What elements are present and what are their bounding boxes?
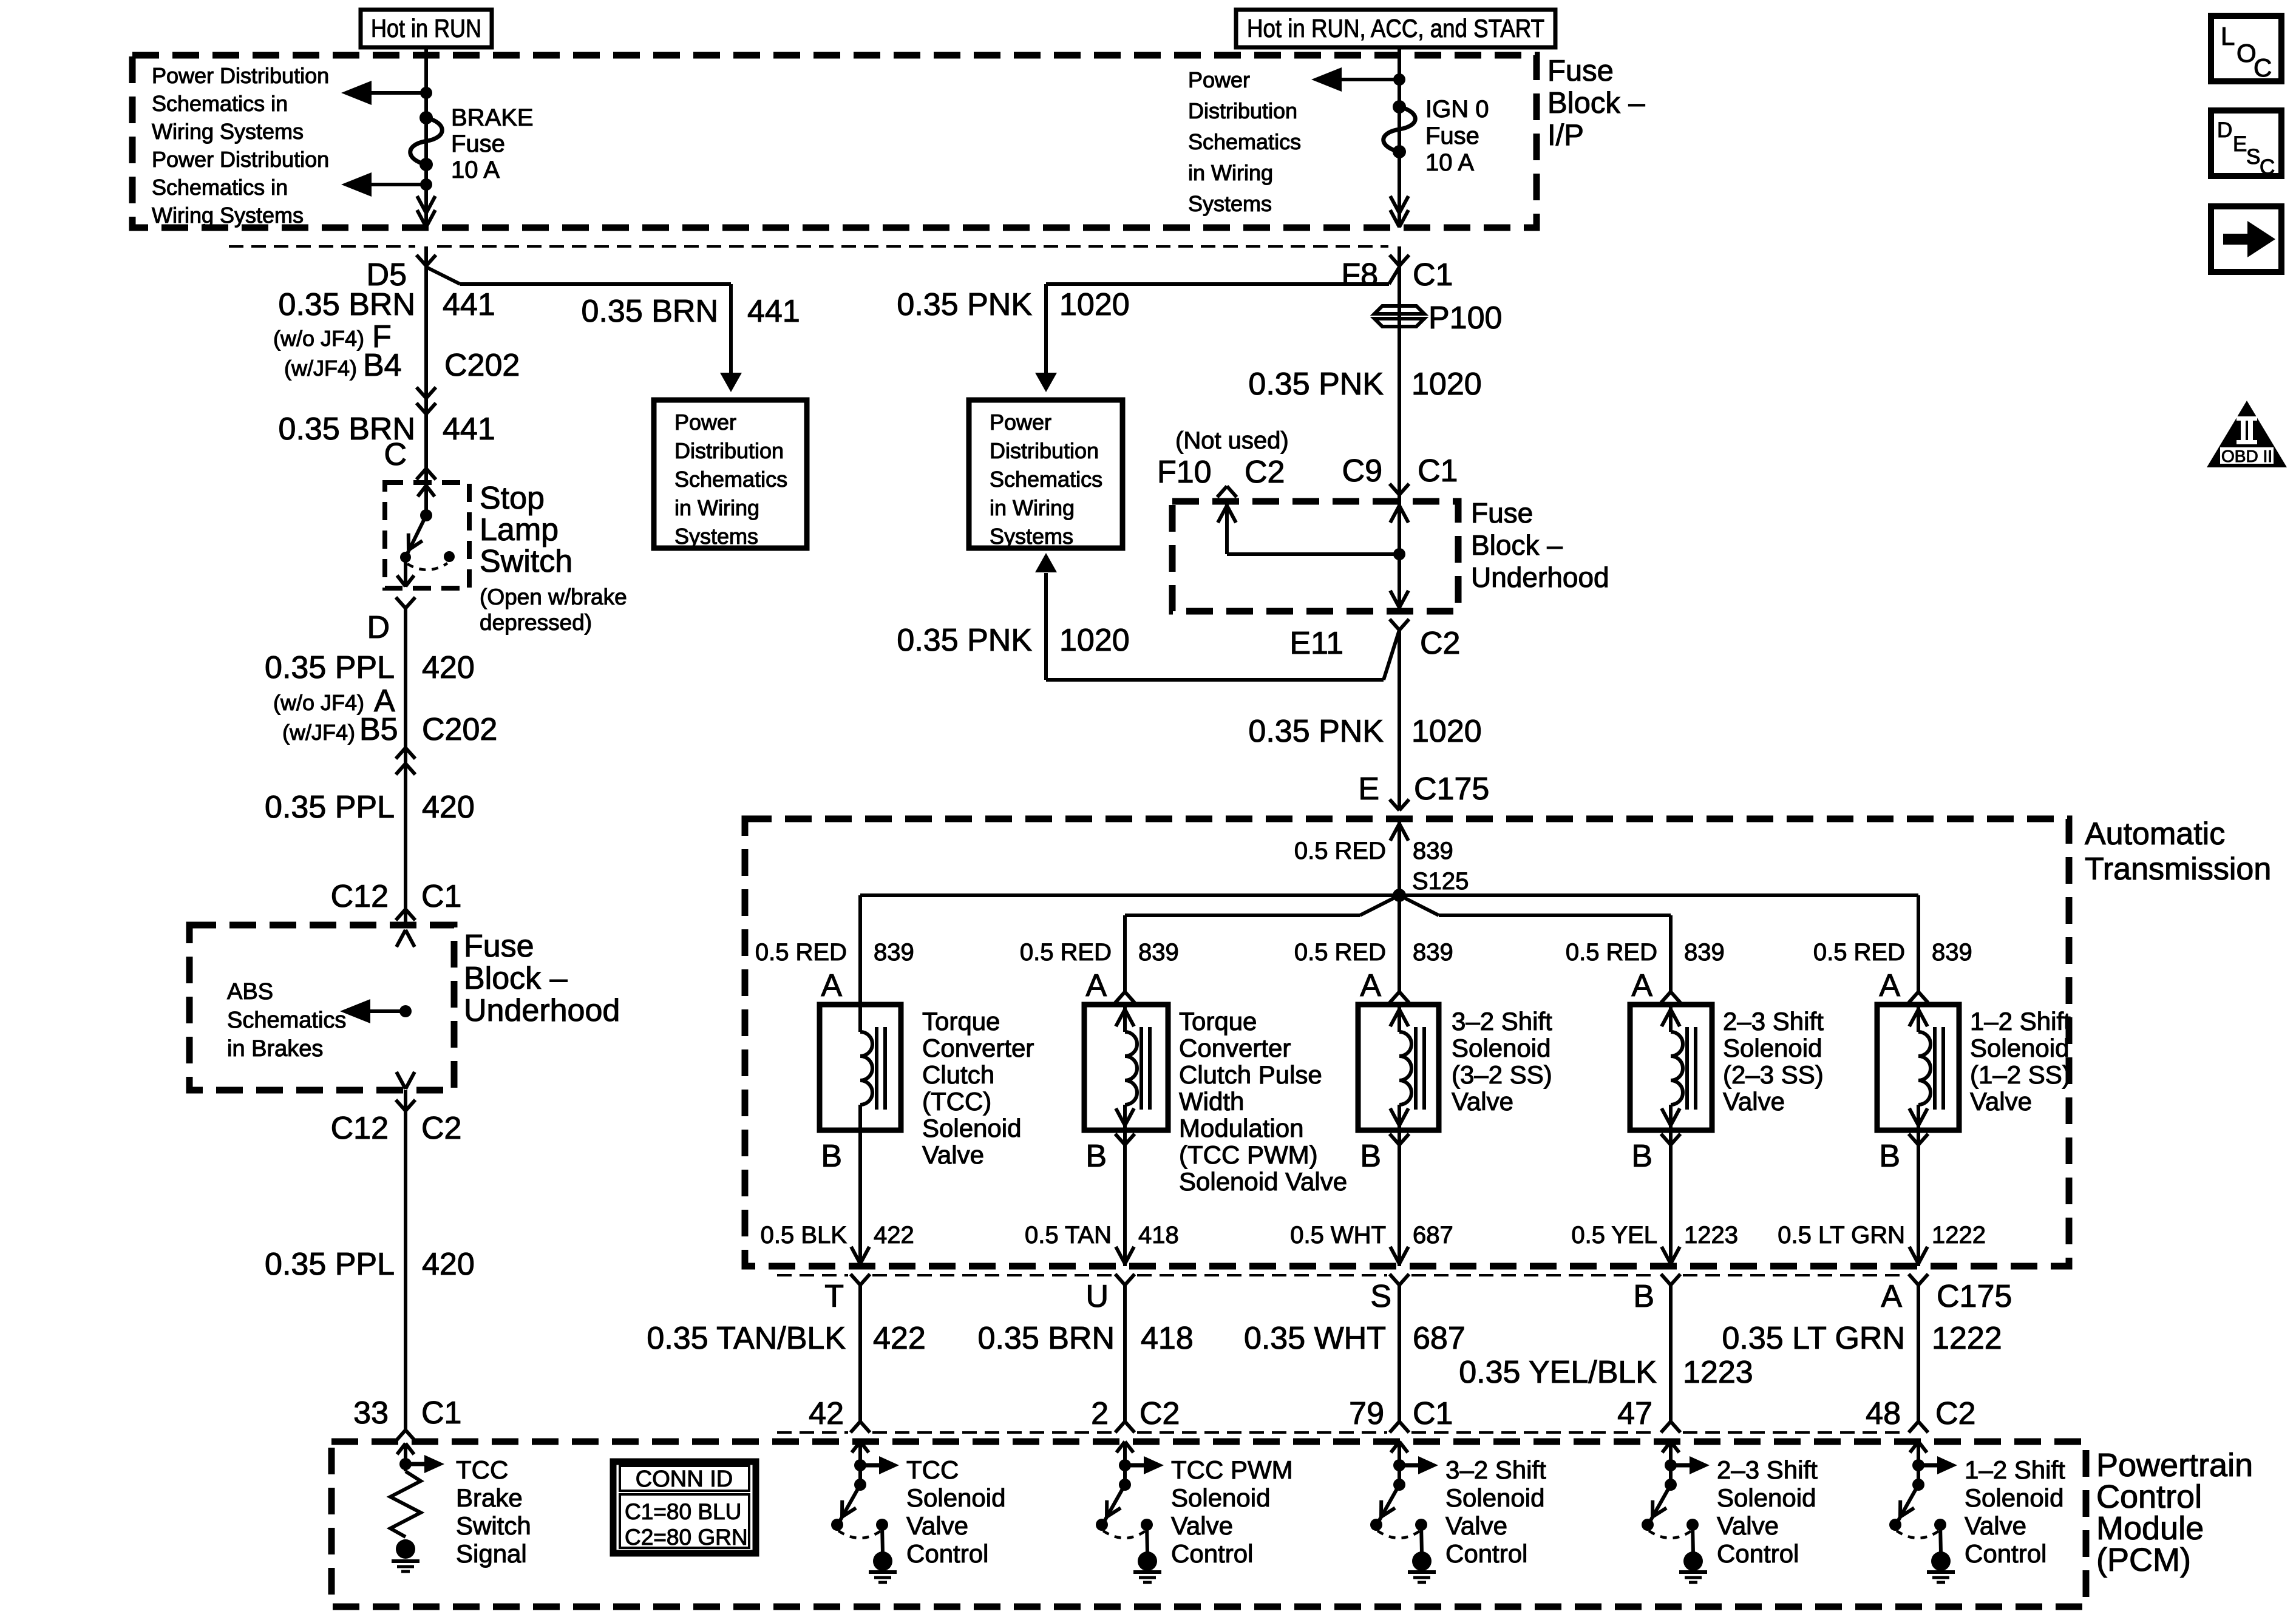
svg-text:E11: E11: [1289, 626, 1343, 661]
svg-text:C1: C1: [421, 879, 461, 914]
svg-text:422: 422: [874, 1222, 914, 1249]
svg-text:1020: 1020: [1059, 287, 1130, 322]
svg-text:Schematics: Schematics: [1188, 129, 1301, 154]
svg-text:0.5 RED: 0.5 RED: [1294, 939, 1386, 966]
svg-text:0.5 RED: 0.5 RED: [1813, 939, 1905, 966]
svg-text:C2: C2: [1140, 1396, 1180, 1431]
svg-text:C2: C2: [421, 1111, 461, 1146]
svg-text:79: 79: [1349, 1396, 1384, 1431]
svg-text:C: C: [2254, 53, 2272, 82]
svg-text:U: U: [1085, 1279, 1109, 1314]
svg-text:Solenoid: Solenoid: [1723, 1034, 1822, 1062]
svg-text:(1–2 SS): (1–2 SS): [1970, 1060, 2071, 1089]
svg-text:1020: 1020: [1411, 367, 1482, 402]
svg-text:Underhood: Underhood: [1471, 561, 1609, 593]
svg-text:420: 420: [422, 650, 475, 685]
svg-text:TCC: TCC: [456, 1456, 508, 1484]
svg-text:Solenoid: Solenoid: [922, 1114, 1021, 1142]
svg-text:0.35 PNK: 0.35 PNK: [1248, 367, 1384, 402]
svg-text:C202: C202: [422, 712, 497, 747]
svg-text:Block –: Block –: [464, 961, 568, 996]
svg-text:0.35 PPL: 0.35 PPL: [265, 650, 395, 685]
svg-text:Power: Power: [1188, 67, 1250, 92]
svg-text:441: 441: [443, 412, 495, 447]
svg-text:Systems: Systems: [674, 524, 758, 549]
svg-text:B5: B5: [359, 712, 398, 747]
svg-text:3–2 Shift: 3–2 Shift: [1445, 1456, 1546, 1484]
svg-text:ABS: ABS: [227, 979, 273, 1005]
svg-text:Powertrain: Powertrain: [2096, 1447, 2253, 1483]
svg-text:C: C: [384, 437, 407, 472]
svg-text:0.5 RED: 0.5 RED: [1020, 939, 1112, 966]
svg-text:Schematics: Schematics: [674, 467, 787, 492]
svg-text:Solenoid: Solenoid: [1445, 1483, 1544, 1512]
svg-text:Converter: Converter: [922, 1034, 1034, 1062]
svg-text:Wiring Systems: Wiring Systems: [152, 203, 304, 228]
svg-text:C175: C175: [1414, 771, 1489, 807]
svg-text:D: D: [367, 610, 390, 645]
svg-text:Systems: Systems: [1188, 191, 1272, 216]
svg-text:B: B: [1633, 1279, 1654, 1314]
svg-text:839: 839: [1684, 939, 1725, 966]
svg-text:0.35 BRN: 0.35 BRN: [978, 1321, 1115, 1356]
svg-text:0.35 LT GRN: 0.35 LT GRN: [1722, 1321, 1905, 1356]
svg-text:Switch: Switch: [480, 544, 572, 579]
svg-text:Valve: Valve: [906, 1511, 968, 1540]
svg-text:420: 420: [422, 1247, 475, 1282]
svg-text:10 A: 10 A: [1425, 149, 1474, 176]
svg-text:3–2 Shift: 3–2 Shift: [1452, 1007, 1552, 1036]
svg-text:Transmission: Transmission: [2085, 852, 2271, 887]
svg-text:Schematics in: Schematics in: [152, 91, 288, 116]
svg-text:Valve: Valve: [1970, 1087, 2032, 1116]
svg-text:Wiring Systems: Wiring Systems: [152, 119, 304, 144]
svg-text:Converter: Converter: [1179, 1034, 1291, 1062]
svg-text:Power: Power: [674, 410, 736, 435]
svg-text:B: B: [1879, 1139, 1900, 1174]
svg-text:C2: C2: [1420, 626, 1460, 661]
svg-text:Signal: Signal: [456, 1539, 527, 1568]
svg-text:C1=80 BLU: C1=80 BLU: [625, 1499, 741, 1524]
svg-text:Systems: Systems: [990, 524, 1073, 549]
svg-text:TCC: TCC: [906, 1456, 959, 1484]
svg-text:(Not used): (Not used): [1175, 427, 1289, 454]
svg-text:1020: 1020: [1411, 714, 1482, 749]
svg-text:1222: 1222: [1932, 1222, 1986, 1249]
svg-text:Clutch: Clutch: [922, 1060, 994, 1089]
svg-text:0.35 PNK: 0.35 PNK: [897, 287, 1032, 322]
svg-text:C1: C1: [1413, 257, 1453, 293]
svg-text:2–3 Shift: 2–3 Shift: [1723, 1007, 1824, 1036]
svg-text:Schematics: Schematics: [227, 1008, 346, 1033]
svg-text:C2=80 GRN: C2=80 GRN: [625, 1525, 748, 1550]
svg-text:A: A: [821, 968, 842, 1003]
svg-text:839: 839: [1413, 939, 1453, 966]
svg-text:48: 48: [1866, 1396, 1901, 1431]
svg-text:E: E: [1358, 771, 1379, 807]
svg-text:0.5 BLK: 0.5 BLK: [761, 1222, 847, 1249]
svg-text:Brake: Brake: [456, 1483, 523, 1512]
svg-text:2–3 Shift: 2–3 Shift: [1717, 1456, 1818, 1484]
svg-text:Control: Control: [1171, 1539, 1253, 1568]
svg-text:depressed): depressed): [480, 610, 592, 635]
svg-text:Width: Width: [1179, 1087, 1244, 1116]
svg-text:(w/o JF4): (w/o JF4): [273, 690, 364, 715]
svg-text:1–2 Shift: 1–2 Shift: [1970, 1007, 2071, 1036]
svg-text:839: 839: [1932, 939, 1972, 966]
svg-text:IGN 0: IGN 0: [1425, 96, 1489, 123]
svg-text:in Brakes: in Brakes: [227, 1036, 323, 1062]
svg-text:in Wiring: in Wiring: [674, 495, 759, 520]
svg-text:839: 839: [874, 939, 914, 966]
svg-text:Solenoid: Solenoid: [1965, 1483, 2063, 1512]
svg-text:C: C: [2260, 155, 2275, 179]
svg-text:Control: Control: [1717, 1539, 1799, 1568]
svg-text:687: 687: [1413, 1321, 1466, 1356]
svg-text:C202: C202: [444, 348, 520, 383]
svg-text:Solenoid: Solenoid: [1171, 1483, 1270, 1512]
svg-text:Valve: Valve: [1445, 1511, 1507, 1540]
svg-text:Solenoid: Solenoid: [1970, 1034, 2069, 1062]
svg-text:E: E: [2233, 132, 2247, 156]
svg-text:Distribution: Distribution: [1188, 98, 1297, 123]
svg-text:Power: Power: [990, 410, 1051, 435]
svg-text:Valve: Valve: [1452, 1087, 1513, 1116]
svg-text:(TCC PWM): (TCC PWM): [1179, 1141, 1318, 1169]
svg-text:C9: C9: [1342, 453, 1382, 489]
svg-text:Stop: Stop: [480, 481, 545, 516]
svg-text:C2: C2: [1935, 1396, 1975, 1431]
svg-text:839: 839: [1138, 939, 1179, 966]
svg-text:Control: Control: [1445, 1539, 1527, 1568]
svg-text:(TCC): (TCC): [922, 1087, 991, 1116]
svg-text:P100: P100: [1428, 300, 1502, 336]
svg-text:Schematics in: Schematics in: [152, 175, 288, 200]
svg-text:420: 420: [422, 790, 475, 825]
svg-text:Schematics: Schematics: [990, 467, 1102, 492]
svg-text:in Wiring: in Wiring: [1188, 160, 1273, 185]
svg-text:687: 687: [1413, 1222, 1453, 1249]
svg-text:F8: F8: [1341, 257, 1378, 293]
svg-text:2: 2: [1091, 1396, 1109, 1431]
svg-text:47: 47: [1617, 1396, 1652, 1431]
svg-text:0.5 WHT: 0.5 WHT: [1290, 1222, 1386, 1249]
svg-text:Valve: Valve: [922, 1141, 984, 1169]
svg-text:Fuse: Fuse: [464, 929, 534, 964]
svg-text:Solenoid Valve: Solenoid Valve: [1179, 1167, 1347, 1196]
svg-text:C12: C12: [331, 1111, 389, 1146]
svg-text:B: B: [1085, 1139, 1107, 1174]
svg-text:10 A: 10 A: [451, 157, 500, 183]
svg-text:S: S: [1370, 1279, 1391, 1314]
svg-text:Solenoid: Solenoid: [1452, 1034, 1550, 1062]
svg-text:(w/JF4): (w/JF4): [284, 356, 357, 381]
svg-text:A: A: [1360, 968, 1381, 1003]
svg-text:Automatic: Automatic: [2085, 816, 2225, 852]
svg-text:Block –: Block –: [1547, 87, 1645, 120]
svg-text:A: A: [1085, 968, 1107, 1003]
svg-text:Valve: Valve: [1965, 1511, 2026, 1540]
svg-text:(PCM): (PCM): [2096, 1542, 2191, 1578]
svg-text:418: 418: [1138, 1222, 1179, 1249]
svg-text:0.35 PPL: 0.35 PPL: [265, 790, 395, 825]
svg-text:Modulation: Modulation: [1179, 1114, 1303, 1142]
svg-text:1222: 1222: [1932, 1321, 2002, 1356]
svg-text:0.35 BRN: 0.35 BRN: [279, 287, 415, 322]
svg-text:(Open w/brake: (Open w/brake: [480, 585, 627, 609]
svg-text:(w/o JF4): (w/o JF4): [273, 326, 364, 351]
svg-text:0.35 BRN: 0.35 BRN: [582, 294, 718, 329]
svg-text:B: B: [1631, 1139, 1652, 1174]
svg-text:Control: Control: [906, 1539, 988, 1568]
svg-text:Control: Control: [2096, 1479, 2202, 1515]
svg-text:0.35 YEL/BLK: 0.35 YEL/BLK: [1459, 1355, 1657, 1390]
svg-text:1223: 1223: [1683, 1355, 1753, 1390]
svg-text:D: D: [2217, 118, 2232, 142]
svg-text:Hot in RUN, ACC, and START: Hot in RUN, ACC, and START: [1247, 14, 1544, 42]
svg-text:441: 441: [747, 294, 800, 329]
svg-text:L: L: [2221, 22, 2235, 50]
svg-text:B: B: [1360, 1139, 1381, 1174]
svg-text:0.5 RED: 0.5 RED: [1566, 939, 1657, 966]
svg-text:Distribution: Distribution: [990, 438, 1099, 463]
svg-text:C1: C1: [421, 1395, 461, 1431]
svg-text:T: T: [824, 1279, 844, 1314]
svg-text:Power Distribution: Power Distribution: [152, 147, 329, 172]
svg-text:F10: F10: [1157, 455, 1212, 490]
svg-text:Lamp: Lamp: [480, 512, 559, 547]
svg-text:Fuse: Fuse: [1425, 123, 1479, 149]
svg-text:Valve: Valve: [1717, 1511, 1779, 1540]
svg-text:C2: C2: [1245, 455, 1285, 490]
svg-text:B: B: [821, 1139, 842, 1174]
svg-text:0.5 TAN: 0.5 TAN: [1025, 1222, 1112, 1249]
svg-text:A: A: [1881, 1279, 1902, 1314]
svg-text:Fuse: Fuse: [451, 131, 505, 157]
svg-text:Underhood: Underhood: [464, 993, 620, 1028]
svg-text:42: 42: [809, 1396, 844, 1431]
svg-text:in Wiring: in Wiring: [990, 495, 1075, 520]
svg-text:441: 441: [443, 287, 495, 322]
svg-text:Switch: Switch: [456, 1511, 531, 1540]
svg-text:I/P: I/P: [1547, 119, 1584, 152]
svg-text:0.35 WHT: 0.35 WHT: [1244, 1321, 1386, 1356]
svg-text:0.5 YEL: 0.5 YEL: [1571, 1222, 1657, 1249]
svg-text:TCC PWM: TCC PWM: [1171, 1456, 1293, 1484]
svg-text:Solenoid: Solenoid: [1717, 1483, 1816, 1512]
svg-text:0.35 PNK: 0.35 PNK: [897, 623, 1032, 658]
svg-text:Block –: Block –: [1471, 529, 1563, 561]
svg-text:Torque: Torque: [922, 1007, 1000, 1036]
svg-text:(w/JF4): (w/JF4): [282, 720, 355, 745]
svg-text:Valve: Valve: [1723, 1087, 1785, 1116]
svg-text:(3–2 SS): (3–2 SS): [1452, 1060, 1552, 1089]
svg-text:422: 422: [873, 1321, 926, 1356]
svg-text:C1: C1: [1413, 1396, 1453, 1431]
svg-text:Fuse: Fuse: [1547, 55, 1614, 87]
svg-text:0.5 RED: 0.5 RED: [755, 939, 847, 966]
svg-text:C1: C1: [1418, 453, 1458, 489]
svg-text:Power Distribution: Power Distribution: [152, 63, 329, 88]
svg-text:B4: B4: [363, 348, 402, 383]
svg-text:Module: Module: [2096, 1510, 2204, 1547]
svg-text:Distribution: Distribution: [674, 438, 784, 463]
svg-text:Valve: Valve: [1171, 1511, 1233, 1540]
svg-text:CONN ID: CONN ID: [636, 1466, 733, 1492]
svg-text:C175: C175: [1937, 1279, 2012, 1314]
svg-text:Fuse: Fuse: [1471, 497, 1533, 529]
svg-text:1020: 1020: [1059, 623, 1130, 658]
svg-text:S125: S125: [1412, 868, 1469, 895]
svg-text:Control: Control: [1965, 1539, 2046, 1568]
svg-text:(2–3 SS): (2–3 SS): [1723, 1060, 1824, 1089]
svg-text:0.35 PNK: 0.35 PNK: [1248, 714, 1384, 749]
svg-text:Solenoid: Solenoid: [906, 1483, 1005, 1512]
svg-text:OBD II: OBD II: [2221, 447, 2272, 466]
svg-text:0.35 PPL: 0.35 PPL: [265, 1247, 395, 1282]
svg-text:Hot in RUN: Hot in RUN: [371, 14, 481, 42]
svg-text:418: 418: [1141, 1321, 1194, 1356]
svg-text:839: 839: [1413, 838, 1453, 864]
svg-text:Torque: Torque: [1179, 1007, 1257, 1036]
svg-text:Clutch Pulse: Clutch Pulse: [1179, 1060, 1322, 1089]
svg-text:0.5 LT GRN: 0.5 LT GRN: [1778, 1222, 1905, 1249]
svg-text:A: A: [1631, 968, 1652, 1003]
svg-text:S: S: [2246, 145, 2260, 169]
svg-text:1–2 Shift: 1–2 Shift: [1965, 1456, 2065, 1484]
svg-text:BRAKE: BRAKE: [451, 104, 534, 131]
svg-text:0.35 TAN/BLK: 0.35 TAN/BLK: [647, 1321, 846, 1356]
svg-text:0.5 RED: 0.5 RED: [1294, 838, 1386, 864]
svg-text:A: A: [1879, 968, 1900, 1003]
svg-text:33: 33: [353, 1395, 389, 1431]
svg-text:1223: 1223: [1684, 1222, 1738, 1249]
svg-text:C12: C12: [331, 879, 389, 914]
